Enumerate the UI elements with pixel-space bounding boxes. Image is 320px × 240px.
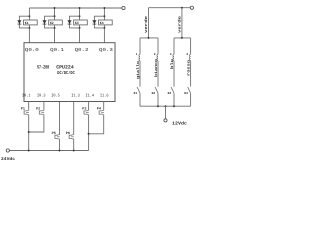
svg-text:K4: K4: [100, 21, 104, 26]
svg-text:Q0.1: Q0.1: [50, 47, 64, 53]
svg-text:4: 4: [186, 53, 188, 56]
svg-text:3: 3: [170, 53, 172, 56]
svg-text:P1: P1: [21, 107, 25, 112]
svg-text:I1.6: I1.6: [100, 93, 109, 98]
svg-text:CPU224: CPU224: [56, 65, 74, 71]
svg-text:Q0.0: Q0.0: [25, 47, 39, 53]
svg-text:K1: K1: [25, 21, 29, 26]
svg-text:K1: K1: [134, 92, 138, 95]
svg-text:P3: P3: [82, 107, 86, 112]
svg-text:blu: blu: [170, 58, 175, 69]
svg-text:verde: verde: [144, 15, 149, 33]
svg-text:DC/DC/DC: DC/DC/DC: [57, 70, 75, 76]
svg-text:verde: verde: [177, 15, 182, 33]
svg-text:giallo: giallo: [136, 60, 141, 79]
svg-text:1: 1: [136, 53, 138, 56]
svg-text:I1.3: I1.3: [71, 93, 80, 98]
svg-text:Q0.3: Q0.3: [99, 47, 113, 53]
svg-text:I0.5: I0.5: [51, 93, 60, 98]
svg-text:K3: K3: [75, 21, 79, 26]
svg-text:I1.4: I1.4: [86, 93, 95, 98]
svg-text:P5: P5: [52, 131, 56, 136]
svg-text:I0.1: I0.1: [22, 93, 31, 98]
svg-text:P4: P4: [97, 107, 101, 112]
svg-text:P6: P6: [66, 131, 70, 136]
svg-text:2: 2: [154, 53, 156, 56]
svg-text:Q0.2: Q0.2: [75, 47, 89, 53]
svg-text:S7-200: S7-200: [37, 65, 49, 71]
svg-text:K4: K4: [184, 92, 188, 95]
svg-text:12Vdc: 12Vdc: [172, 121, 187, 127]
svg-text:P2: P2: [36, 107, 40, 112]
svg-text:K2: K2: [50, 21, 54, 26]
svg-text:rosso: rosso: [187, 59, 192, 76]
svg-text:K3: K3: [168, 92, 172, 95]
svg-text:I0.3: I0.3: [37, 93, 46, 98]
svg-text:K2: K2: [152, 92, 156, 95]
svg-text:bianco: bianco: [154, 58, 159, 77]
